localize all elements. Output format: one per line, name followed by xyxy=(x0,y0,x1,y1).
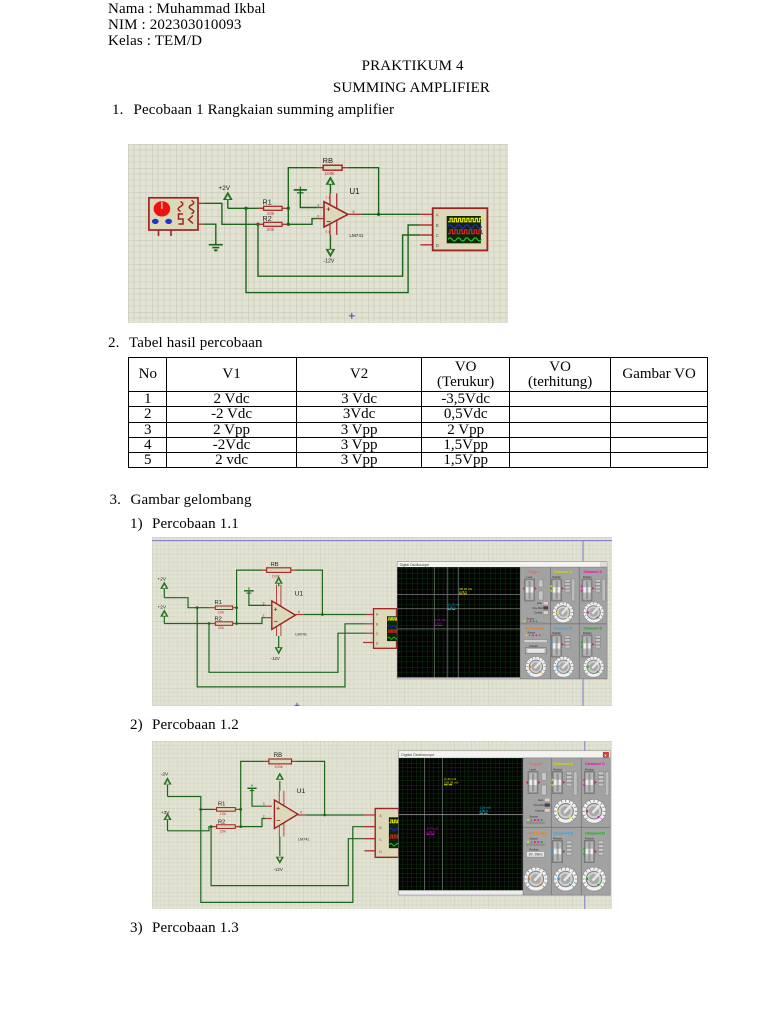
svg-text:Position: Position xyxy=(530,645,539,648)
scope display xyxy=(397,567,520,677)
resistor RB xyxy=(262,562,295,579)
svg-text:Digital Oscilloscope: Digital Oscilloscope xyxy=(401,753,434,757)
svg-text:+2V: +2V xyxy=(157,605,166,611)
oscilloscope component xyxy=(364,809,399,858)
ground (pin 3) xyxy=(247,785,256,791)
svg-text:+: + xyxy=(274,606,278,613)
wire: scope C loop xyxy=(258,224,420,276)
control panel xyxy=(523,758,610,895)
scope display xyxy=(399,758,523,890)
junction output xyxy=(323,814,326,817)
svg-text:D: D xyxy=(436,243,439,248)
wire: feedback left vertical xyxy=(288,168,317,225)
svg-text:Channel B: Channel B xyxy=(554,627,573,631)
ground (pin 3) xyxy=(244,587,254,593)
junction R1 right xyxy=(239,808,242,811)
resistor R1 xyxy=(258,198,289,216)
svg-text:A: A xyxy=(436,212,439,217)
schematic grid background xyxy=(152,741,612,909)
resistor R2 xyxy=(213,819,241,833)
svg-text:Level: Level xyxy=(530,767,537,771)
resistor RB xyxy=(264,753,296,769)
svg-text:Horizontal: Horizontal xyxy=(527,830,547,835)
svg-text:Horizontal: Horizontal xyxy=(526,627,545,631)
power +12V arrow (op-amp) xyxy=(326,177,334,193)
wire: scope B loop xyxy=(197,608,365,687)
power -12V arrow (op-amp) xyxy=(326,235,334,256)
svg-text:3: 3 xyxy=(263,802,265,806)
svg-text:R2: R2 xyxy=(218,819,225,825)
svg-text:Channel D: Channel D xyxy=(584,627,603,631)
channel D section xyxy=(580,627,604,678)
schematic grid background xyxy=(128,144,508,323)
horizontal section xyxy=(524,830,548,891)
channel C section xyxy=(582,761,609,823)
wire: R2 node to op-amp pin 2 xyxy=(241,819,267,827)
junction node output xyxy=(377,213,380,216)
svg-text:5 4: 5 4 xyxy=(326,230,331,234)
svg-text:−: − xyxy=(274,617,278,626)
wire: scope B loop xyxy=(201,809,364,902)
wire: output to scope A xyxy=(306,814,364,816)
wire: R2 node to op-amp pin 2 xyxy=(288,219,317,225)
trigger section xyxy=(522,570,548,624)
svg-text:Cursors: Cursors xyxy=(534,612,543,615)
svg-text:R1: R1 xyxy=(218,801,225,807)
power -12V arrow (op-amp bottom) xyxy=(275,636,282,654)
oscilloscope window xyxy=(399,751,611,895)
svg-text:100k: 100k xyxy=(274,765,282,769)
wire: feedback left vertical xyxy=(237,570,263,623)
power +12V arrow (op-amp top) xyxy=(275,577,282,586)
svg-text:Channel D: Channel D xyxy=(585,830,605,835)
svg-text:Position: Position xyxy=(553,632,562,635)
channel A section xyxy=(551,761,578,823)
op-amp U1 xyxy=(317,193,361,235)
power +2V arrow (top) xyxy=(161,582,168,597)
junction R1 right xyxy=(235,606,238,609)
svg-text:Source: Source xyxy=(530,837,539,841)
channel B section xyxy=(550,627,574,678)
svg-text:+: + xyxy=(326,204,331,213)
svg-text:20k: 20k xyxy=(218,626,224,630)
svg-text:One-Shot: One-Shot xyxy=(534,803,545,807)
junction R2 right xyxy=(235,622,238,625)
resistor R1 xyxy=(209,600,236,614)
wire: +2V to R1 xyxy=(164,598,209,608)
sheet border (blue) xyxy=(584,741,586,909)
junction R2 right xyxy=(239,825,242,828)
svg-text:R1: R1 xyxy=(215,600,222,606)
junction at R2 input xyxy=(208,622,211,625)
junction output xyxy=(321,613,324,616)
svg-text:Digital Oscilloscope: Digital Oscilloscope xyxy=(400,563,430,567)
svg-text:Position: Position xyxy=(583,576,592,579)
svg-text:2.00 V: 2.00 V xyxy=(426,830,435,834)
channel B section xyxy=(551,830,578,891)
power +2V arrow (second) xyxy=(161,610,168,623)
svg-text:Position: Position xyxy=(553,837,563,841)
junction node R2 right xyxy=(287,223,290,226)
function generator xyxy=(149,198,204,236)
svg-text:RB: RB xyxy=(274,753,282,759)
wire: -2V to R1 xyxy=(168,797,214,810)
svg-text:-12V: -12V xyxy=(274,867,283,872)
svg-text:Auto: Auto xyxy=(537,602,543,605)
svg-text:R2: R2 xyxy=(263,214,272,223)
wire: generator bottom pin to ground xyxy=(204,224,216,245)
op-amp U1 xyxy=(263,791,306,837)
trigger section xyxy=(526,761,550,824)
svg-text:20k: 20k xyxy=(220,829,226,833)
oscilloscope window xyxy=(397,562,607,679)
horizontal section xyxy=(524,627,547,678)
svg-text:R1: R1 xyxy=(263,198,272,207)
svg-text:20k: 20k xyxy=(267,227,275,232)
svg-text:Cursors: Cursors xyxy=(535,808,545,812)
svg-text:RB: RB xyxy=(323,156,334,165)
svg-text:Position: Position xyxy=(553,767,563,771)
svg-text:-12V: -12V xyxy=(271,656,280,661)
svg-text:Channel C: Channel C xyxy=(584,570,603,574)
sheet border (blue) xyxy=(152,541,612,706)
oscilloscope component xyxy=(420,208,488,250)
svg-text:R2: R2 xyxy=(215,616,222,622)
svg-text:2.08 V: 2.08 V xyxy=(459,590,467,594)
junction at R2 input xyxy=(210,825,213,828)
wire: RB right to output node xyxy=(295,570,322,614)
svg-text:Trigger: Trigger xyxy=(527,570,540,574)
ground (op-amp pin 3) xyxy=(294,187,307,193)
svg-text:10k: 10k xyxy=(218,610,224,614)
control panel xyxy=(520,567,607,679)
svg-text:Channel A: Channel A xyxy=(554,570,573,574)
svg-text:100k: 100k xyxy=(325,171,336,176)
svg-text:One-Shot: One-Shot xyxy=(533,607,544,610)
resistor R2 xyxy=(209,616,236,630)
wire: RB right to output node xyxy=(349,168,379,215)
svg-text:2: 2 xyxy=(317,215,319,219)
svg-text:+: + xyxy=(276,806,280,813)
channel A section xyxy=(550,570,575,623)
svg-text:B: B xyxy=(376,622,378,626)
wire: output to scope A xyxy=(304,614,366,616)
svg-text:Position: Position xyxy=(583,632,592,635)
svg-text:−: − xyxy=(326,216,331,226)
wire: scope C loop xyxy=(209,624,366,673)
power -12V arrow (op-amp bottom) xyxy=(276,837,283,864)
svg-text:10k: 10k xyxy=(220,812,226,816)
ground (near generator) xyxy=(209,245,223,252)
svg-text:+2V: +2V xyxy=(219,185,231,192)
svg-text:Position: Position xyxy=(530,847,540,851)
wire: second source to R2 xyxy=(164,623,209,625)
power -2V arrow xyxy=(164,778,171,796)
svg-text:Channel B: Channel B xyxy=(553,830,573,835)
schematic grid background xyxy=(152,537,612,706)
svg-text:LM741: LM741 xyxy=(298,837,310,841)
svg-text:Channel A: Channel A xyxy=(553,761,573,766)
resistor R1 xyxy=(213,801,241,816)
wire: RB right to output node xyxy=(296,761,325,815)
svg-text:-2V: -2V xyxy=(161,771,169,777)
svg-text:LM741: LM741 xyxy=(295,632,307,636)
svg-text:C: C xyxy=(436,233,439,238)
svg-text:Auto: Auto xyxy=(538,798,544,802)
wire: +3V to R2 xyxy=(168,827,214,831)
resistor RB xyxy=(317,156,348,176)
origin cursor xyxy=(295,703,300,708)
svg-text:−: − xyxy=(276,816,280,825)
svg-text:Channel C: Channel C xyxy=(585,761,605,766)
svg-text:LM741: LM741 xyxy=(349,233,363,238)
channel D section xyxy=(582,830,606,891)
wire: scope B loop xyxy=(246,208,420,292)
svg-text:3: 3 xyxy=(317,204,319,208)
svg-text:Source: Source xyxy=(530,815,539,819)
svg-text:2.00 V: 2.00 V xyxy=(480,809,489,813)
origin cursor xyxy=(349,313,355,319)
svg-text:108.29 mV: 108.29 mV xyxy=(444,781,459,785)
svg-text:Source: Source xyxy=(527,618,535,621)
svg-text:-12V: -12V xyxy=(323,259,334,265)
svg-text:U1: U1 xyxy=(297,788,306,795)
wire: scope C loop xyxy=(211,827,364,886)
power +12V arrow (op-amp top) xyxy=(276,773,283,790)
svg-text:U1: U1 xyxy=(349,187,360,196)
wire: ground to pin 3 xyxy=(249,592,266,606)
power +2V arrow xyxy=(224,193,232,209)
svg-text:C: C xyxy=(379,838,382,842)
power +3V arrow xyxy=(164,814,171,831)
svg-text:Trigger: Trigger xyxy=(529,761,543,766)
svg-text:B: B xyxy=(436,223,439,228)
wire: ground to pin 3 xyxy=(300,191,317,208)
junction node at R1 input xyxy=(244,207,247,210)
svg-text:Position: Position xyxy=(553,576,562,579)
svg-text:6: 6 xyxy=(298,610,300,614)
oscilloscope component xyxy=(363,609,398,649)
wire: feedback left vertical xyxy=(241,761,265,826)
junction at R1 input xyxy=(199,808,202,811)
svg-text:6: 6 xyxy=(300,810,302,814)
svg-text:Position: Position xyxy=(585,767,595,771)
svg-text:2: 2 xyxy=(263,614,265,618)
junction at R1 input xyxy=(196,606,199,609)
svg-text:7 1: 7 1 xyxy=(326,196,331,200)
junction node at R2 input xyxy=(256,223,259,226)
resistor R2 xyxy=(258,214,289,232)
junction node R1 right xyxy=(287,207,290,210)
wire: ground to pin 3 xyxy=(252,789,266,806)
wire: R2 node to op-amp pin 2 xyxy=(237,618,267,624)
svg-text:6: 6 xyxy=(353,210,355,214)
svg-text:+2V: +2V xyxy=(157,576,166,582)
op-amp U1 xyxy=(263,585,304,636)
svg-text:U1: U1 xyxy=(295,590,304,597)
svg-text:3: 3 xyxy=(263,601,265,605)
window close button xyxy=(603,752,609,757)
channel C section xyxy=(580,570,605,623)
svg-text:20.06ms: 20.06ms xyxy=(529,854,543,858)
svg-text:D: D xyxy=(379,850,382,854)
svg-text:2: 2 xyxy=(263,815,265,819)
svg-text:Source: Source xyxy=(528,632,536,635)
svg-text:Position: Position xyxy=(585,837,595,841)
wire: op-amp output to scope A xyxy=(361,213,420,215)
wire: +2V to R1 xyxy=(228,207,264,209)
svg-text:RB: RB xyxy=(271,562,279,568)
svg-text:Level: Level xyxy=(527,576,533,579)
wire: generator top pin to R2 line xyxy=(204,203,258,224)
svg-text:2.00 V: 2.00 V xyxy=(434,621,442,625)
svg-text:2.00 V: 2.00 V xyxy=(448,606,456,610)
